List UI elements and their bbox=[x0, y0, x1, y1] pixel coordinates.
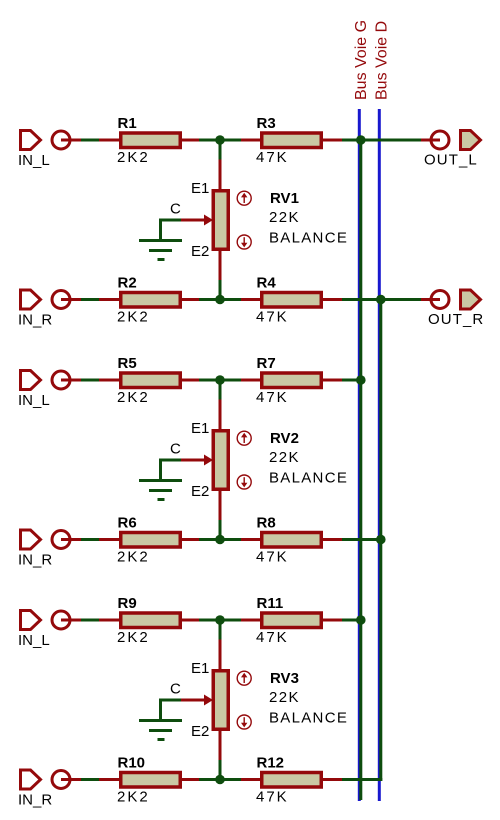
svg-text:R8: R8 bbox=[257, 515, 276, 532]
resistor R9 body bbox=[121, 613, 181, 628]
svg-text:C: C bbox=[170, 441, 181, 458]
svg-text:BALANCE: BALANCE bbox=[269, 710, 348, 727]
pin wire R6 right bbox=[180, 538, 199, 541]
junction node at x=220 y=539.5 bbox=[215, 535, 225, 545]
svg-text:E1: E1 bbox=[191, 180, 209, 197]
resistor R1 body bbox=[121, 133, 181, 148]
connector OUT_L output bbox=[461, 131, 481, 150]
up arrow indicator of RV3 bbox=[237, 671, 251, 685]
terminal IN_L bbox=[52, 131, 70, 149]
svg-text:2K2: 2K2 bbox=[117, 549, 150, 566]
svg-text:R12: R12 bbox=[257, 755, 285, 772]
svg-text:E2: E2 bbox=[191, 243, 209, 260]
wire R7 to bus bbox=[342, 379, 362, 382]
pin wire R10 right bbox=[180, 778, 199, 781]
wire C to ground (green) bbox=[161, 220, 182, 241]
resistor R11 body bbox=[262, 613, 322, 628]
wire C to ground (green) bbox=[161, 700, 182, 721]
pin wire R11 right bbox=[321, 619, 342, 622]
wire R4 to output through buses bbox=[342, 298, 421, 301]
svg-text:R3: R3 bbox=[257, 115, 276, 132]
terminal IN_R bbox=[52, 291, 70, 309]
pin wire R7 right bbox=[321, 379, 342, 382]
pin wire R5 right bbox=[180, 379, 199, 382]
pin wire terminal IN_R to wire bbox=[61, 298, 81, 301]
svg-text:C: C bbox=[170, 681, 181, 698]
wire junction to RV2 E1 (green) bbox=[219, 380, 222, 400]
svg-text:R1: R1 bbox=[118, 115, 137, 132]
svg-text:R10: R10 bbox=[118, 755, 146, 772]
pin wire R5 left bbox=[99, 379, 121, 382]
svg-text:47K: 47K bbox=[256, 789, 289, 806]
svg-text:RV1: RV1 bbox=[270, 190, 299, 207]
svg-text:E2: E2 bbox=[191, 723, 209, 740]
svg-text:47K: 47K bbox=[256, 149, 289, 166]
wire IN_L terminal to R9 bbox=[81, 619, 99, 622]
pin RV3 E2 bbox=[219, 730, 222, 761]
pin wire R1 left bbox=[99, 139, 121, 142]
wiper arrow of RV1 (pin C) bbox=[181, 219, 206, 222]
connector IN_L input bbox=[21, 371, 41, 390]
pin wire terminal OUT_L bbox=[421, 139, 440, 142]
junction node at x=220 y=380 bbox=[215, 375, 225, 385]
up arrow indicator of RV1 bbox=[237, 191, 251, 205]
svg-text:R9: R9 bbox=[118, 595, 137, 612]
wire vertical net Voie D (green, on bus 2) bbox=[379, 298, 382, 781]
svg-text:IN_L: IN_L bbox=[18, 152, 50, 169]
connector IN_R input bbox=[21, 530, 41, 549]
pin RV2 E2 bbox=[219, 490, 222, 521]
svg-text:RV3: RV3 bbox=[270, 670, 299, 687]
terminal IN_R bbox=[52, 771, 70, 789]
svg-text:E1: E1 bbox=[191, 420, 209, 437]
wire IN_R terminal to R10 bbox=[81, 778, 99, 781]
junction node at x=220 y=620 bbox=[215, 615, 225, 625]
svg-text:R7: R7 bbox=[257, 355, 276, 372]
down arrow indicator of RV3 bbox=[237, 715, 251, 729]
wire junction to RV1 E1 (green) bbox=[219, 140, 222, 160]
pin wire R11 left bbox=[241, 619, 262, 622]
pin wire R8 right bbox=[321, 538, 342, 541]
pin wire R7 left bbox=[241, 379, 262, 382]
svg-text:Bus Voie G: Bus Voie G bbox=[353, 20, 370, 100]
svg-text:IN_R: IN_R bbox=[18, 552, 52, 569]
wire RV3 E2 to junction (green) bbox=[219, 760, 222, 780]
svg-text:IN_R: IN_R bbox=[18, 792, 52, 809]
svg-text:2K2: 2K2 bbox=[117, 629, 150, 646]
pin wire R8 left bbox=[241, 538, 262, 541]
junction node on bus at x=380.8 y=539.5 bbox=[376, 535, 386, 545]
svg-text:BALANCE: BALANCE bbox=[269, 470, 348, 487]
junction node at x=220 y=779.5 bbox=[215, 775, 225, 785]
svg-text:BALANCE: BALANCE bbox=[269, 230, 348, 247]
junction node at x=220 y=140 bbox=[215, 135, 225, 145]
junction node on bus at x=360.8 y=380 bbox=[356, 375, 366, 385]
pin wire terminal OUT_R bbox=[421, 298, 440, 301]
wire R6 to junction bbox=[199, 538, 241, 541]
svg-text:2K2: 2K2 bbox=[117, 789, 150, 806]
wire R2 to junction bbox=[199, 298, 241, 301]
resistor R3 body bbox=[262, 133, 322, 148]
pin wire R1 right bbox=[180, 139, 199, 142]
down arrow indicator of RV2 bbox=[237, 475, 251, 489]
wire R11 to bus bbox=[342, 619, 362, 622]
svg-text:R5: R5 bbox=[118, 355, 137, 372]
wire R1 to junction bbox=[199, 139, 241, 142]
wire RV2 E2 to junction (green) bbox=[219, 520, 222, 540]
svg-text:47K: 47K bbox=[256, 549, 289, 566]
connector OUT_R output bbox=[461, 290, 481, 309]
pin wire terminal IN_L to wire bbox=[61, 379, 81, 382]
terminal IN_L bbox=[52, 611, 70, 629]
pin wire terminal IN_R to wire bbox=[61, 778, 81, 781]
resistor R8 body bbox=[262, 533, 322, 548]
junction node on bus at x=360.8 y=620 bbox=[356, 615, 366, 625]
pin wire R2 left bbox=[99, 298, 121, 301]
terminal IN_R bbox=[52, 531, 70, 549]
wire IN_R terminal to R6 bbox=[81, 538, 99, 541]
svg-text:R6: R6 bbox=[118, 515, 137, 532]
svg-text:Bus Voie D: Bus Voie D bbox=[374, 21, 391, 100]
terminal OUT_R bbox=[431, 291, 449, 309]
resistor R7 body bbox=[262, 373, 322, 388]
pin RV1 E1 bbox=[219, 160, 222, 191]
pin RV2 E1 bbox=[219, 400, 222, 431]
wire R12 to bus bbox=[342, 778, 382, 781]
connector IN_L input bbox=[21, 131, 41, 150]
terminal OUT_L bbox=[431, 131, 449, 149]
wire R5 to junction bbox=[199, 379, 241, 382]
pin RV3 E1 bbox=[219, 640, 222, 671]
pin wire terminal IN_R to wire bbox=[61, 538, 81, 541]
svg-text:47K: 47K bbox=[256, 309, 289, 326]
wire vertical net Voie G (green, on bus 1) bbox=[359, 139, 362, 800]
svg-text:IN_L: IN_L bbox=[18, 392, 50, 409]
svg-text:C: C bbox=[170, 201, 181, 218]
terminal IN_L bbox=[52, 371, 70, 389]
svg-text:E1: E1 bbox=[191, 660, 209, 677]
wire IN_L terminal to R1 bbox=[81, 139, 99, 142]
wire C to ground (green) bbox=[161, 460, 182, 481]
svg-text:E2: E2 bbox=[191, 483, 209, 500]
wire RV1 E2 to junction (green) bbox=[219, 280, 222, 300]
connector IN_R input bbox=[21, 770, 41, 789]
pin wire R3 left bbox=[241, 139, 262, 142]
wiper arrow of RV3 (pin C) bbox=[181, 699, 206, 702]
wire R10 to junction bbox=[199, 778, 241, 781]
wiper arrow of RV2 (pin C) bbox=[181, 459, 206, 462]
resistor R4 body bbox=[262, 293, 322, 308]
connector IN_L input bbox=[21, 611, 41, 630]
svg-text:R2: R2 bbox=[118, 275, 137, 292]
down arrow indicator of RV1 bbox=[237, 235, 251, 249]
pin wire R10 left bbox=[99, 778, 121, 781]
svg-text:22K: 22K bbox=[269, 209, 300, 226]
wire R3 to output through buses bbox=[342, 139, 421, 142]
svg-text:2K2: 2K2 bbox=[117, 149, 150, 166]
pin wire R12 left bbox=[241, 778, 262, 781]
pin wire R4 right bbox=[321, 298, 342, 301]
svg-text:22K: 22K bbox=[269, 449, 300, 466]
svg-text:RV2: RV2 bbox=[270, 430, 299, 447]
pin wire R6 left bbox=[99, 538, 121, 541]
svg-text:22K: 22K bbox=[269, 689, 300, 706]
svg-text:IN_L: IN_L bbox=[18, 632, 50, 649]
pin RV1 E2 bbox=[219, 250, 222, 281]
wire IN_R terminal to R2 bbox=[81, 298, 99, 301]
pin wire R9 left bbox=[99, 619, 121, 622]
resistor R12 body bbox=[262, 773, 322, 788]
svg-text:IN_R: IN_R bbox=[18, 312, 52, 329]
resistor R10 body bbox=[121, 773, 181, 788]
resistor R2 body bbox=[121, 293, 181, 308]
ground symbol bbox=[139, 719, 182, 722]
wire R9 to junction bbox=[199, 619, 241, 622]
pin wire R3 right bbox=[321, 139, 342, 142]
bus Bus Voie G (blue bus line 1) bbox=[358, 109, 361, 801]
resistor R6 body bbox=[121, 533, 181, 548]
potentiometer RV2 body bbox=[213, 431, 228, 490]
wire junction to RV3 E1 (green) bbox=[219, 620, 222, 640]
svg-text:2K2: 2K2 bbox=[117, 389, 150, 406]
svg-text:OUT_R: OUT_R bbox=[428, 311, 484, 328]
ground symbol bbox=[139, 239, 182, 242]
junction node on bus at x=360.8 y=140 bbox=[356, 135, 366, 145]
potentiometer RV3 body bbox=[213, 671, 228, 730]
resistor R5 body bbox=[121, 373, 181, 388]
junction node at x=220 y=299.5 bbox=[215, 295, 225, 305]
pin wire terminal IN_L to wire bbox=[61, 619, 81, 622]
svg-text:R4: R4 bbox=[257, 275, 277, 292]
up arrow indicator of RV2 bbox=[237, 431, 251, 445]
pin wire R2 right bbox=[180, 298, 199, 301]
wire IN_L terminal to R5 bbox=[81, 379, 99, 382]
wire R8 to bus bbox=[342, 538, 382, 541]
bus Bus Voie D (blue bus line 2) bbox=[378, 109, 381, 801]
svg-text:47K: 47K bbox=[256, 389, 289, 406]
connector IN_R input bbox=[21, 290, 41, 309]
potentiometer RV1 body bbox=[213, 191, 228, 250]
ground symbol bbox=[139, 479, 182, 482]
svg-text:2K2: 2K2 bbox=[117, 309, 150, 326]
pin wire terminal IN_L to wire bbox=[61, 139, 81, 142]
junction node on bus at x=380.8 y=299.5 bbox=[376, 295, 386, 305]
pin wire R4 left bbox=[241, 298, 262, 301]
svg-text:OUT_L: OUT_L bbox=[424, 152, 478, 169]
svg-text:R11: R11 bbox=[257, 595, 284, 612]
svg-text:47K: 47K bbox=[256, 629, 289, 646]
pin wire R9 right bbox=[180, 619, 199, 622]
pin wire R12 right bbox=[321, 778, 342, 781]
